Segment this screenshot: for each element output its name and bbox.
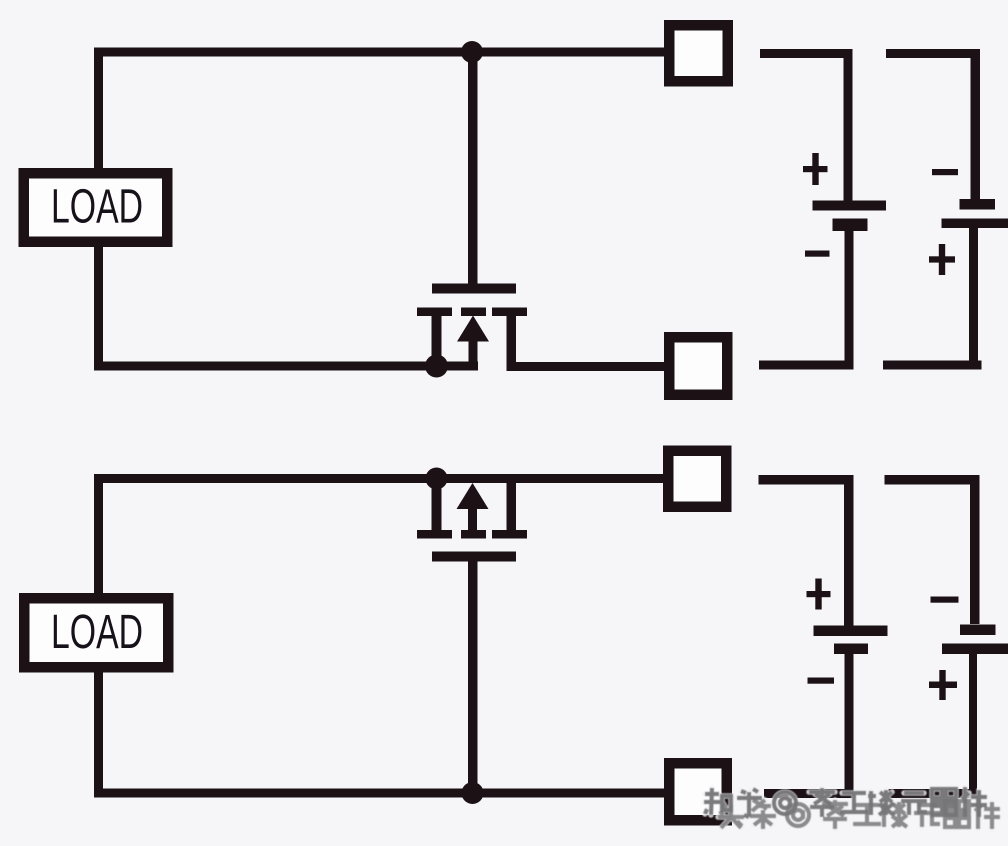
battery B4: - sign bbox=[931, 597, 959, 603]
battery B2: short plate (-) bbox=[960, 199, 996, 210]
transistor Q1 channel segment left bbox=[417, 308, 452, 317]
node: top junction dot (source/body tie) bbox=[426, 468, 448, 490]
battery B3: + sign bbox=[807, 579, 831, 610]
battery B1: bottom lead vertical bbox=[845, 231, 854, 370]
battery B3: bottom lead wire to J4 bbox=[764, 789, 854, 798]
LOAD box (top) bbox=[19, 168, 173, 247]
wire: Q1 source stub down to bottom rail bbox=[432, 316, 442, 364]
transistor Q2 channel segment right bbox=[492, 530, 527, 539]
battery B2: bottom lead vertical bbox=[969, 228, 978, 370]
battery B4: short plate (-) bbox=[960, 625, 996, 636]
battery B4: bottom lead wire bbox=[889, 789, 978, 798]
node: bottom junction dot bbox=[462, 782, 484, 804]
battery B3: bottom lead vertical bbox=[845, 654, 854, 798]
battery B4: top lead wire bbox=[885, 475, 980, 485]
wire: left vertical upper (rail to LOAD) bbox=[94, 48, 103, 173]
wire: gate vertical from top junction down to Q1 gate bbox=[468, 52, 478, 284]
wire: Q2 drain stub from top rail down bbox=[507, 478, 517, 530]
transistor Q1 channel segment right bbox=[492, 308, 527, 317]
battery B2: top lead vertical bbox=[971, 49, 981, 199]
battery B1: top lead vertical bbox=[844, 49, 853, 201]
transistor Q2 body arrow (points up at rail) bbox=[457, 483, 489, 509]
battery B3: long plate (+) bbox=[814, 626, 888, 637]
battery B3: - sign bbox=[808, 678, 835, 684]
transistor Q2 gate bar (below) bbox=[432, 552, 516, 562]
transistor Q1 channel segment middle bbox=[461, 308, 486, 317]
battery B1: + sign bbox=[803, 153, 828, 185]
battery B4: bottom lead vertical bbox=[969, 654, 977, 798]
watermark: 知乎 @李工谈元器件 (doubled) bbox=[704, 787, 1000, 829]
transistor Q1 body arrow (points up) bbox=[457, 316, 489, 342]
battery B2: - sign bbox=[932, 169, 958, 175]
battery B2: + sign bbox=[929, 244, 955, 275]
wire: left vertical upper (rail to LOAD2) bbox=[94, 474, 103, 595]
wire: left vertical lower (LOAD2 to bottom rail) bbox=[94, 670, 103, 798]
connector square J4 (bottom) bbox=[664, 758, 732, 826]
battery B3: short plate (-) bbox=[834, 644, 868, 655]
battery B2: bottom lead wire bbox=[883, 361, 982, 370]
node: top junction dot bbox=[461, 41, 483, 63]
battery B2: top lead wire bbox=[886, 49, 980, 58]
connector square J2 (bottom) bbox=[664, 332, 733, 400]
battery B4: top lead vertical bbox=[970, 475, 980, 624]
wire: bottom rail (corner to connector J4) bbox=[94, 789, 664, 798]
battery B1: short plate (-) bbox=[833, 219, 868, 232]
battery B1: - sign bbox=[805, 251, 830, 257]
wire: left vertical lower (LOAD to bottom rail) bbox=[94, 243, 103, 371]
battery B3: top lead wire bbox=[759, 475, 853, 485]
battery B4: long plate (+) bbox=[942, 644, 1008, 655]
wire: Q2 source stub from top rail down bbox=[432, 478, 442, 530]
LOAD box (bottom) bbox=[19, 593, 174, 673]
wire: gate vertical down to bottom junction bbox=[468, 562, 478, 794]
wire: bottom rail left (corner to MOSFET source) bbox=[94, 362, 478, 371]
transistor Q2 channel segment middle bbox=[461, 530, 486, 539]
battery B2: long plate (+) bbox=[942, 219, 1008, 229]
wire: Q1 body arrow stem to bottom rail bbox=[469, 341, 478, 370]
wire: Q2 body arrow stem down to channel bbox=[468, 509, 477, 531]
battery B4: + sign bbox=[929, 670, 957, 700]
wire: top rail from left corner to connector square J1 bbox=[94, 48, 664, 57]
transistor Q2 channel segment left bbox=[417, 530, 452, 539]
svg-text:LOAD: LOAD bbox=[51, 606, 143, 659]
connector square J1 (top) bbox=[664, 20, 733, 87]
svg-text:LOAD: LOAD bbox=[51, 181, 143, 234]
transistor Q1 (N-MOSFET, gate up) : gate bar bbox=[432, 284, 516, 294]
battery B1: long plate (+) bbox=[813, 201, 887, 211]
wire: top rail from left corner to connector J3 bbox=[94, 474, 663, 483]
battery B1: bottom lead wire to J2 bbox=[759, 361, 854, 370]
wire: Q1 drain stub down then right to connector J2 bbox=[507, 316, 517, 371]
node: bottom junction dot (source/body tie) bbox=[425, 355, 448, 378]
connector square J3 (top) bbox=[663, 446, 732, 513]
battery B3: top lead vertical bbox=[844, 475, 854, 626]
battery B1: top lead wire bbox=[760, 49, 853, 58]
